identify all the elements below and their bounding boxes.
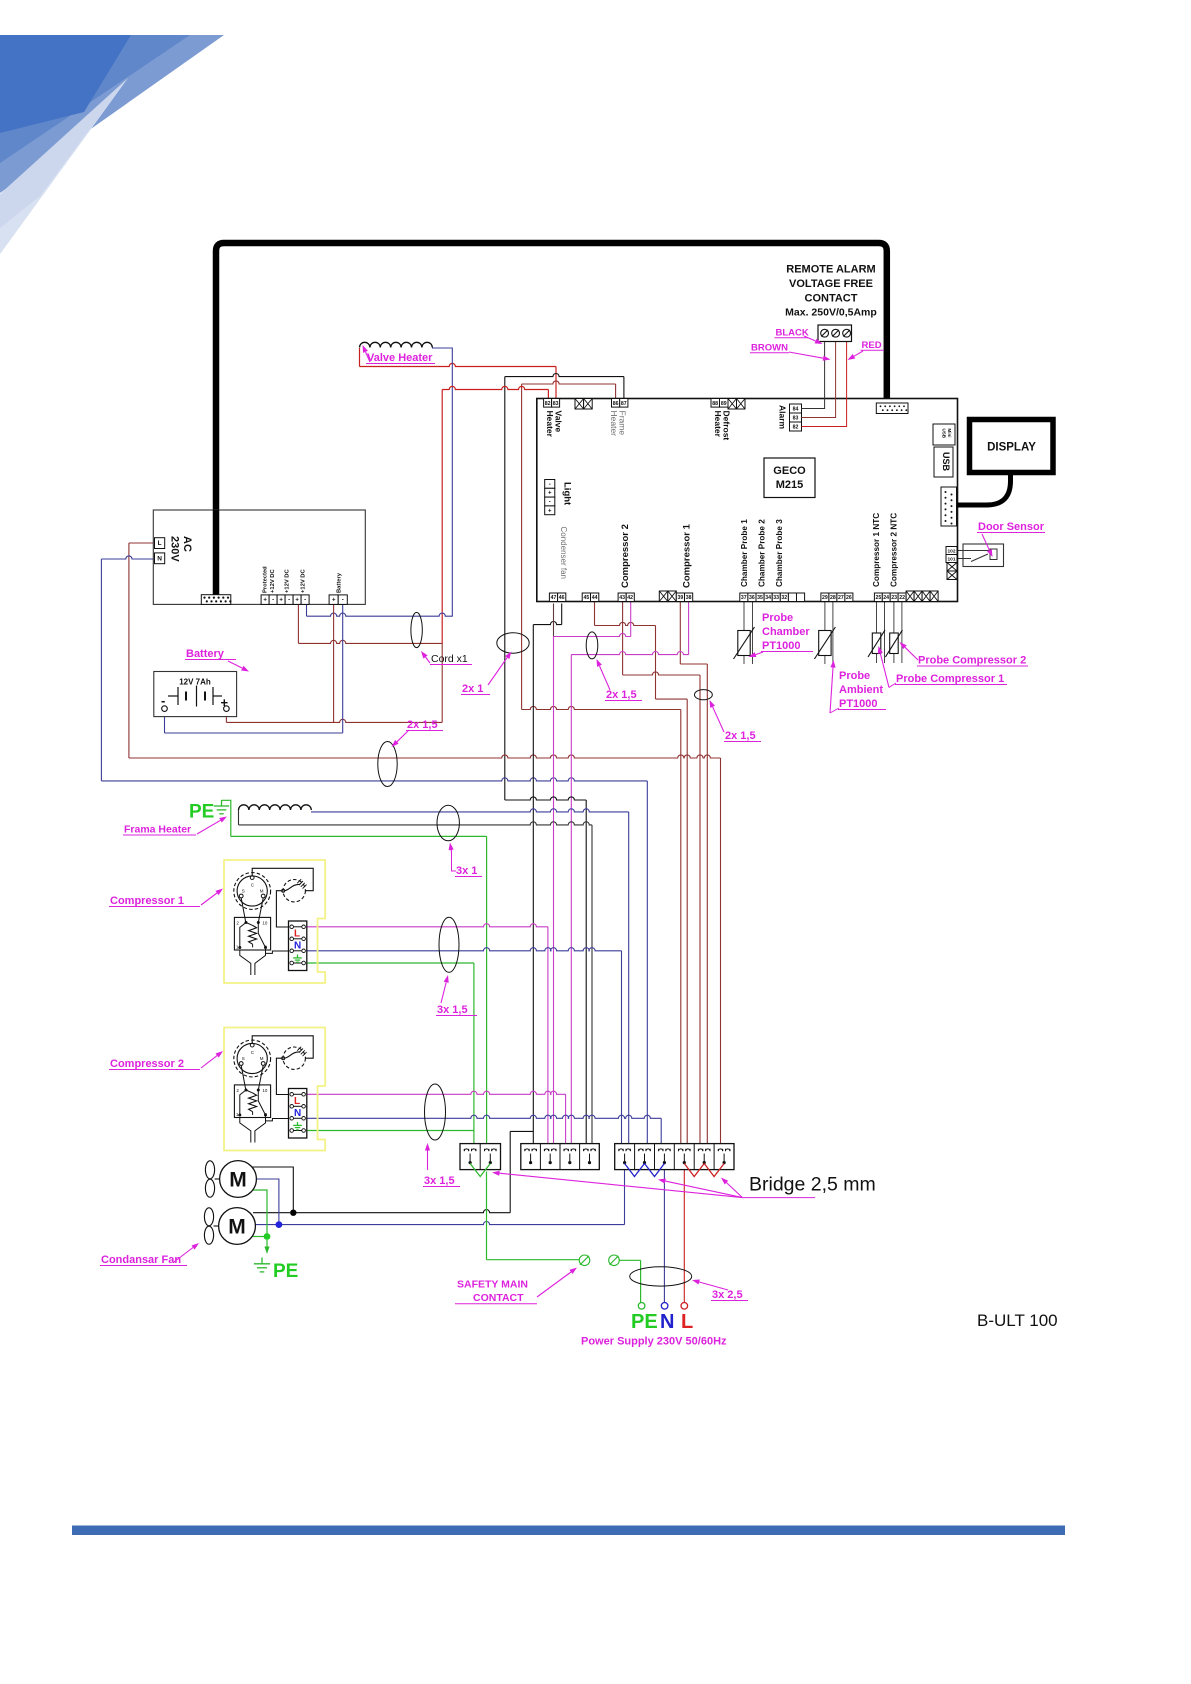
svg-text:-: - [549,500,551,506]
board terminals 86 87 frame heater [612,399,620,408]
svg-text:Valve Heater: Valve Heater [367,352,433,364]
svg-text:Chamber Probe 3: Chamber Probe 3 [775,519,784,587]
wire: compressor 1 N blue [307,948,622,951]
compressor 1 terminal block [289,921,307,971]
board top-right connector [876,403,908,414]
svg-text:M215: M215 [776,479,804,491]
svg-text:2x 1,5: 2x 1,5 [407,719,438,731]
svg-text:47: 47 [551,595,557,601]
board bottom terminals 29-26 [821,593,829,602]
compressor 2 box [224,1028,325,1151]
valve heater coil [360,342,433,347]
board spare terminals XX [575,399,584,410]
board bottom terminals 45 44 [582,593,590,602]
svg-text:+12V DC: +12V DC [270,569,276,593]
wire: probe compressor2 leads [893,601,895,663]
probe ambient PT1000 [819,631,831,656]
svg-text:-: - [272,598,274,604]
svg-text:Probe Compressor 1: Probe Compressor 1 [896,673,1004,685]
wire: compressor 1 L magenta [307,924,548,927]
cable marker Cord x1 [411,612,422,647]
svg-text:Door Sensor: Door Sensor [978,521,1045,533]
GECO M215 controller board [537,399,958,602]
compressor 2 capacitor [240,1118,251,1143]
svg-text:S: S [242,1056,245,1061]
svg-text:3x 1,5: 3x 1,5 [424,1175,455,1187]
svg-text:N: N [157,555,162,562]
svg-text:44: 44 [592,595,598,601]
board USB box [934,447,953,477]
svg-text:2x 1: 2x 1 [462,683,483,695]
svg-text:+: + [295,598,299,604]
condenser fan 2 [219,1208,256,1245]
compressor 1 box [224,860,325,983]
svg-text:BROWN: BROWN [751,343,788,354]
svg-text:AC: AC [181,536,193,552]
wire: AC L brown [129,542,155,544]
svg-text:Compressor 1 NTC: Compressor 1 NTC [872,513,881,587]
display cable [957,472,1011,505]
wire: AC +12V DC navy out [306,604,308,616]
board bottom terminals 25-22 + spares [874,593,882,602]
svg-text:PE: PE [273,1261,298,1282]
svg-text:USB: USB [942,429,947,439]
svg-text:L: L [294,929,300,940]
svg-text:CONTACT: CONTACT [473,1292,524,1304]
cable 3x1,5 compressor1 [439,917,459,972]
cable marker 2x1 [497,633,529,653]
svg-text:12V 7Ah: 12V 7Ah [179,678,211,687]
board bottom terminals 43 42 compressor2 [618,593,626,602]
wire: board 46 black [561,604,563,625]
svg-text:3x 2,5: 3x 2,5 [712,1289,743,1301]
svg-text:M: M [260,1056,264,1061]
wire: safety green [486,1172,488,1260]
svg-text:37: 37 [741,595,747,601]
compressor 1 top lead [252,868,313,890]
wire: alarm contact leads [802,342,825,409]
terminal strip group 3 [615,1144,734,1170]
svg-text:REMOTE ALARM: REMOTE ALARM [786,264,875,276]
svg-text:Cord x1: Cord x1 [431,653,468,665]
wire: condenser fan blue [256,1179,279,1225]
wire: black link to strip 2d [505,797,586,800]
svg-text:DISPLAY: DISPLAY [987,442,1036,454]
wire: AC N blue [101,556,154,559]
svg-text:34: 34 [765,595,771,601]
svg-text:3x 1,5: 3x 1,5 [437,1004,468,1016]
svg-text:Ambient: Ambient [839,684,883,696]
wire: frame heater cord black (board 87) [623,377,625,399]
svg-text:L: L [294,1096,300,1107]
svg-text:Compressor 2 NTC: Compressor 2 NTC [890,513,899,587]
wire: board 45/44 brown [594,602,596,626]
svg-text:Bridge 2,5 mm: Bridge 2,5 mm [749,1174,876,1196]
svg-text:SAFETY MAIN: SAFETY MAIN [457,1279,528,1291]
svg-text:Power Supply 230V 50/60Hz: Power Supply 230V 50/60Hz [581,1336,727,1348]
svg-text:-: - [304,598,306,604]
wire: probe compressor1 leads [876,601,878,663]
compressor 1 thermal protector [283,880,305,902]
svg-text:10: 10 [262,1088,268,1093]
svg-text:Protected: Protected [263,566,269,593]
svg-text:87: 87 [621,401,627,407]
wire: board 82 red to AC DC [547,390,549,400]
svg-text:N: N [294,941,301,952]
footer bar [72,1526,1065,1536]
wire: board 43 brown [622,602,624,675]
wire: probe chamber leads [743,602,745,664]
svg-text:Compressor 2: Compressor 2 [110,1058,184,1070]
svg-text:Max. 250V/0,5Amp: Max. 250V/0,5Amp [785,307,877,319]
board terminals 82 83 valve heater [544,399,552,408]
svg-text:Frama Heater: Frama Heater [124,824,191,836]
svg-text:101: 101 [947,557,955,563]
svg-text:33: 33 [773,595,779,601]
condenser fan 1 [220,1161,257,1198]
power cord (thick) [216,243,887,596]
svg-text:L: L [158,540,162,547]
svg-text:22: 22 [899,595,905,601]
svg-text:B-ULT 100: B-ULT 100 [977,1311,1058,1330]
svg-text:46: 46 [559,595,565,601]
board terminals 102 101 door [946,547,957,555]
board mini-usb box [933,424,955,445]
svg-text:83: 83 [793,416,799,422]
wire: valve heater red from board 83 [359,348,361,367]
svg-text:82: 82 [545,401,551,407]
DISPLAY unit [970,420,1054,473]
frame heater coil [239,805,312,810]
wire: valve heater blue return [432,348,452,617]
svg-text:+: + [548,508,552,514]
svg-text:24: 24 [883,595,889,601]
board bottom terminals 39 38 compressor1 [659,591,668,602]
probe chamber PT1000 [738,631,750,656]
wire: compressor 2 L magenta [307,1091,566,1094]
svg-text:+: + [263,598,267,604]
green bridge group1 [470,1164,490,1177]
cable marker 2x1,5 b [378,742,397,787]
wire: condenser fan black [252,1167,293,1213]
svg-text:39: 39 [678,595,684,601]
svg-text:+12V DC: +12V DC [285,569,291,593]
svg-text:32: 32 [781,595,787,601]
svg-text:+: + [279,598,283,604]
svg-text:23: 23 [891,595,897,601]
cable marker 2x1,5 c (to strip) [695,690,713,700]
wire: frame heater PE green [222,800,231,836]
svg-text:26: 26 [846,595,852,601]
svg-text:3x 1: 3x 1 [456,865,477,877]
probe compressor2 [890,633,899,654]
svg-text:+: + [332,598,336,604]
svg-text:Probe: Probe [839,670,870,682]
wire: frame heater L dark [238,810,240,825]
svg-text:Battery: Battery [186,648,225,660]
compressor 1 capacitor [240,950,251,975]
board light terminals [545,480,555,489]
svg-text:2x 1,5: 2x 1,5 [725,730,756,742]
svg-text:M: M [260,889,264,894]
svg-text:-: - [342,598,344,604]
svg-text:Compressor 2: Compressor 2 [620,524,631,588]
wire: condenser fan green [251,1190,267,1237]
battery 12V 7Ah [154,672,237,717]
svg-text:Chamber Probe 2: Chamber Probe 2 [758,519,767,587]
wire: compressor 1 PE green [307,962,474,964]
wire: supply N [663,1163,665,1303]
svg-text:RED: RED [862,340,882,351]
wire: board 38 violet [688,602,690,655]
svg-text:Heater: Heater [609,411,619,437]
svg-text:Chamber: Chamber [762,626,810,638]
svg-text:M: M [228,1216,246,1239]
svg-text:36: 36 [749,595,755,601]
wire: compressor 2 N blue [307,1115,661,1118]
board alarm terminals 84 83 82 [790,404,802,413]
svg-text:L: L [681,1311,693,1333]
cable marker 2x1,5 a [586,632,598,659]
compressor 1 start relay [234,917,270,950]
remote alarm contact block [818,325,852,342]
wire: door sensor leads [957,550,963,552]
svg-text:-: - [549,482,551,488]
svg-text:89: 89 [721,401,727,407]
svg-text:PT1000: PT1000 [762,640,801,652]
svg-text:N: N [294,1108,301,1119]
compressor 2 terminal block [289,1089,307,1139]
wire: board 42 violet [630,602,632,637]
svg-text:45: 45 [584,595,590,601]
svg-text:+: + [548,491,552,497]
blue bridges group3 [625,1164,645,1177]
svg-text:Heater: Heater [545,411,555,438]
svg-text:Probe: Probe [762,612,793,624]
svg-text:Light: Light [562,482,573,506]
svg-text:10: 10 [262,920,268,925]
svg-text:27: 27 [838,595,844,601]
svg-text:43: 43 [619,595,625,601]
svg-text:M: M [229,1169,247,1192]
svg-text:230V: 230V [169,536,181,562]
svg-text:102: 102 [947,549,955,555]
board display connector [941,487,957,526]
svg-text:Condenser fan: Condenser fan [559,527,568,579]
svg-text:25: 25 [876,595,882,601]
svg-text:Alarm: Alarm [778,405,788,430]
svg-text:Heater: Heater [713,411,723,438]
svg-text:84: 84 [793,407,799,413]
svg-text:PE: PE [189,802,214,823]
svg-text:BLACK: BLACK [776,328,809,339]
board terminals 88 89 defrost heater [711,399,720,408]
board bottom terminals 37-32 chamber probes [740,593,748,602]
compressor 2 motor [234,1040,271,1077]
GECO M215 label box [764,458,815,498]
wire: compressor 2 PE green [307,1130,474,1132]
svg-text:S: S [242,889,245,894]
junction dots [290,1210,296,1216]
svg-text:Condansar Fan: Condansar Fan [101,1254,181,1266]
svg-text:Chamber Probe 1: Chamber Probe 1 [740,519,749,587]
cable 3x1,5 compressor2 [425,1084,446,1140]
svg-text:83: 83 [553,401,559,407]
svg-text:42: 42 [627,595,633,601]
svg-text:VOLTAGE FREE: VOLTAGE FREE [789,278,873,290]
wire: AC +12V DC brown out [297,604,299,643]
cable marker 3x1 [437,805,459,841]
wire: frame heater N blue [311,809,629,812]
svg-text:USB: USB [941,452,951,472]
svg-text:+12V DC: +12V DC [301,569,307,593]
svg-text:28: 28 [830,595,836,601]
probe compressor1 [872,633,881,654]
svg-text:Probe Compressor 2: Probe Compressor 2 [918,655,1026,667]
red bridges group3 [684,1164,704,1177]
svg-text:Compressor 1: Compressor 1 [110,895,184,907]
board bottom terminals 47 46 [549,593,557,602]
svg-text:2x 1,5: 2x 1,5 [606,689,637,701]
svg-text:PE: PE [631,1311,658,1333]
svg-text:88: 88 [712,401,718,407]
terminal strip group 1 [460,1144,501,1170]
svg-text:-: - [288,598,290,604]
door sensor [963,544,1004,567]
page corner decoration [0,35,224,254]
wire: board 39 brown [679,602,681,664]
svg-text:GECO: GECO [773,465,806,477]
terminal strip group 2 [521,1144,600,1170]
svg-text:PT1000: PT1000 [839,698,878,710]
compressor 2 start relay [234,1085,270,1118]
svg-text:35: 35 [757,595,763,601]
svg-text:86: 86 [613,401,619,407]
svg-text:N: N [660,1311,674,1333]
svg-text:Mini: Mini [947,429,952,438]
supply terminals PE N L [638,1303,645,1310]
svg-text:38: 38 [686,595,692,601]
AC 230V power supply unit [153,510,365,604]
wire: board 47 dark [553,604,555,637]
compressor 2 thermal protector [283,1047,305,1069]
cable 3x2,5 [630,1267,692,1286]
wire: battery + [333,604,335,722]
wire: supply L [683,1163,685,1303]
wire: frame heater cord brown (board 86) [615,384,617,399]
wire: battery - [342,604,344,733]
svg-text:Battery: Battery [337,572,343,593]
svg-text:29: 29 [822,595,828,601]
wire: probe ambient leads [824,602,826,664]
fan PE arrow + earth [266,1240,268,1247]
compressor 1 motor [234,873,271,910]
safety main contact [579,1255,590,1266]
compressor 2 top lead [252,1036,313,1058]
svg-text:82: 82 [793,425,799,431]
svg-text:CONTACT: CONTACT [805,293,858,305]
svg-text:Compressor 1: Compressor 1 [682,523,693,588]
